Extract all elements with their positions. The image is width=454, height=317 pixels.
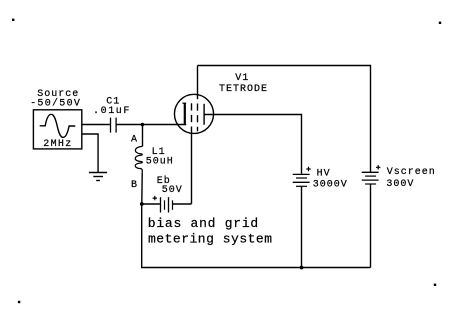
svg-text:Vscreen: Vscreen (387, 167, 436, 178)
svg-text:HV: HV (317, 169, 331, 180)
svg-text:300V: 300V (386, 179, 414, 190)
svg-text:3000V: 3000V (313, 180, 348, 191)
svg-text:A: A (131, 135, 138, 146)
svg-text:.01uF: .01uF (93, 106, 131, 117)
svg-text:-50/50V: -50/50V (30, 98, 81, 110)
svg-text:50uH: 50uH (146, 157, 174, 168)
svg-text:2MHz: 2MHz (43, 139, 72, 150)
svg-text:V1: V1 (235, 73, 249, 84)
svg-text:B: B (131, 180, 138, 191)
svg-text:50V: 50V (162, 185, 183, 196)
svg-text:metering system: metering system (148, 231, 273, 246)
svg-text:bias and grid: bias and grid (148, 216, 259, 231)
svg-text:TETRODE: TETRODE (219, 84, 268, 95)
